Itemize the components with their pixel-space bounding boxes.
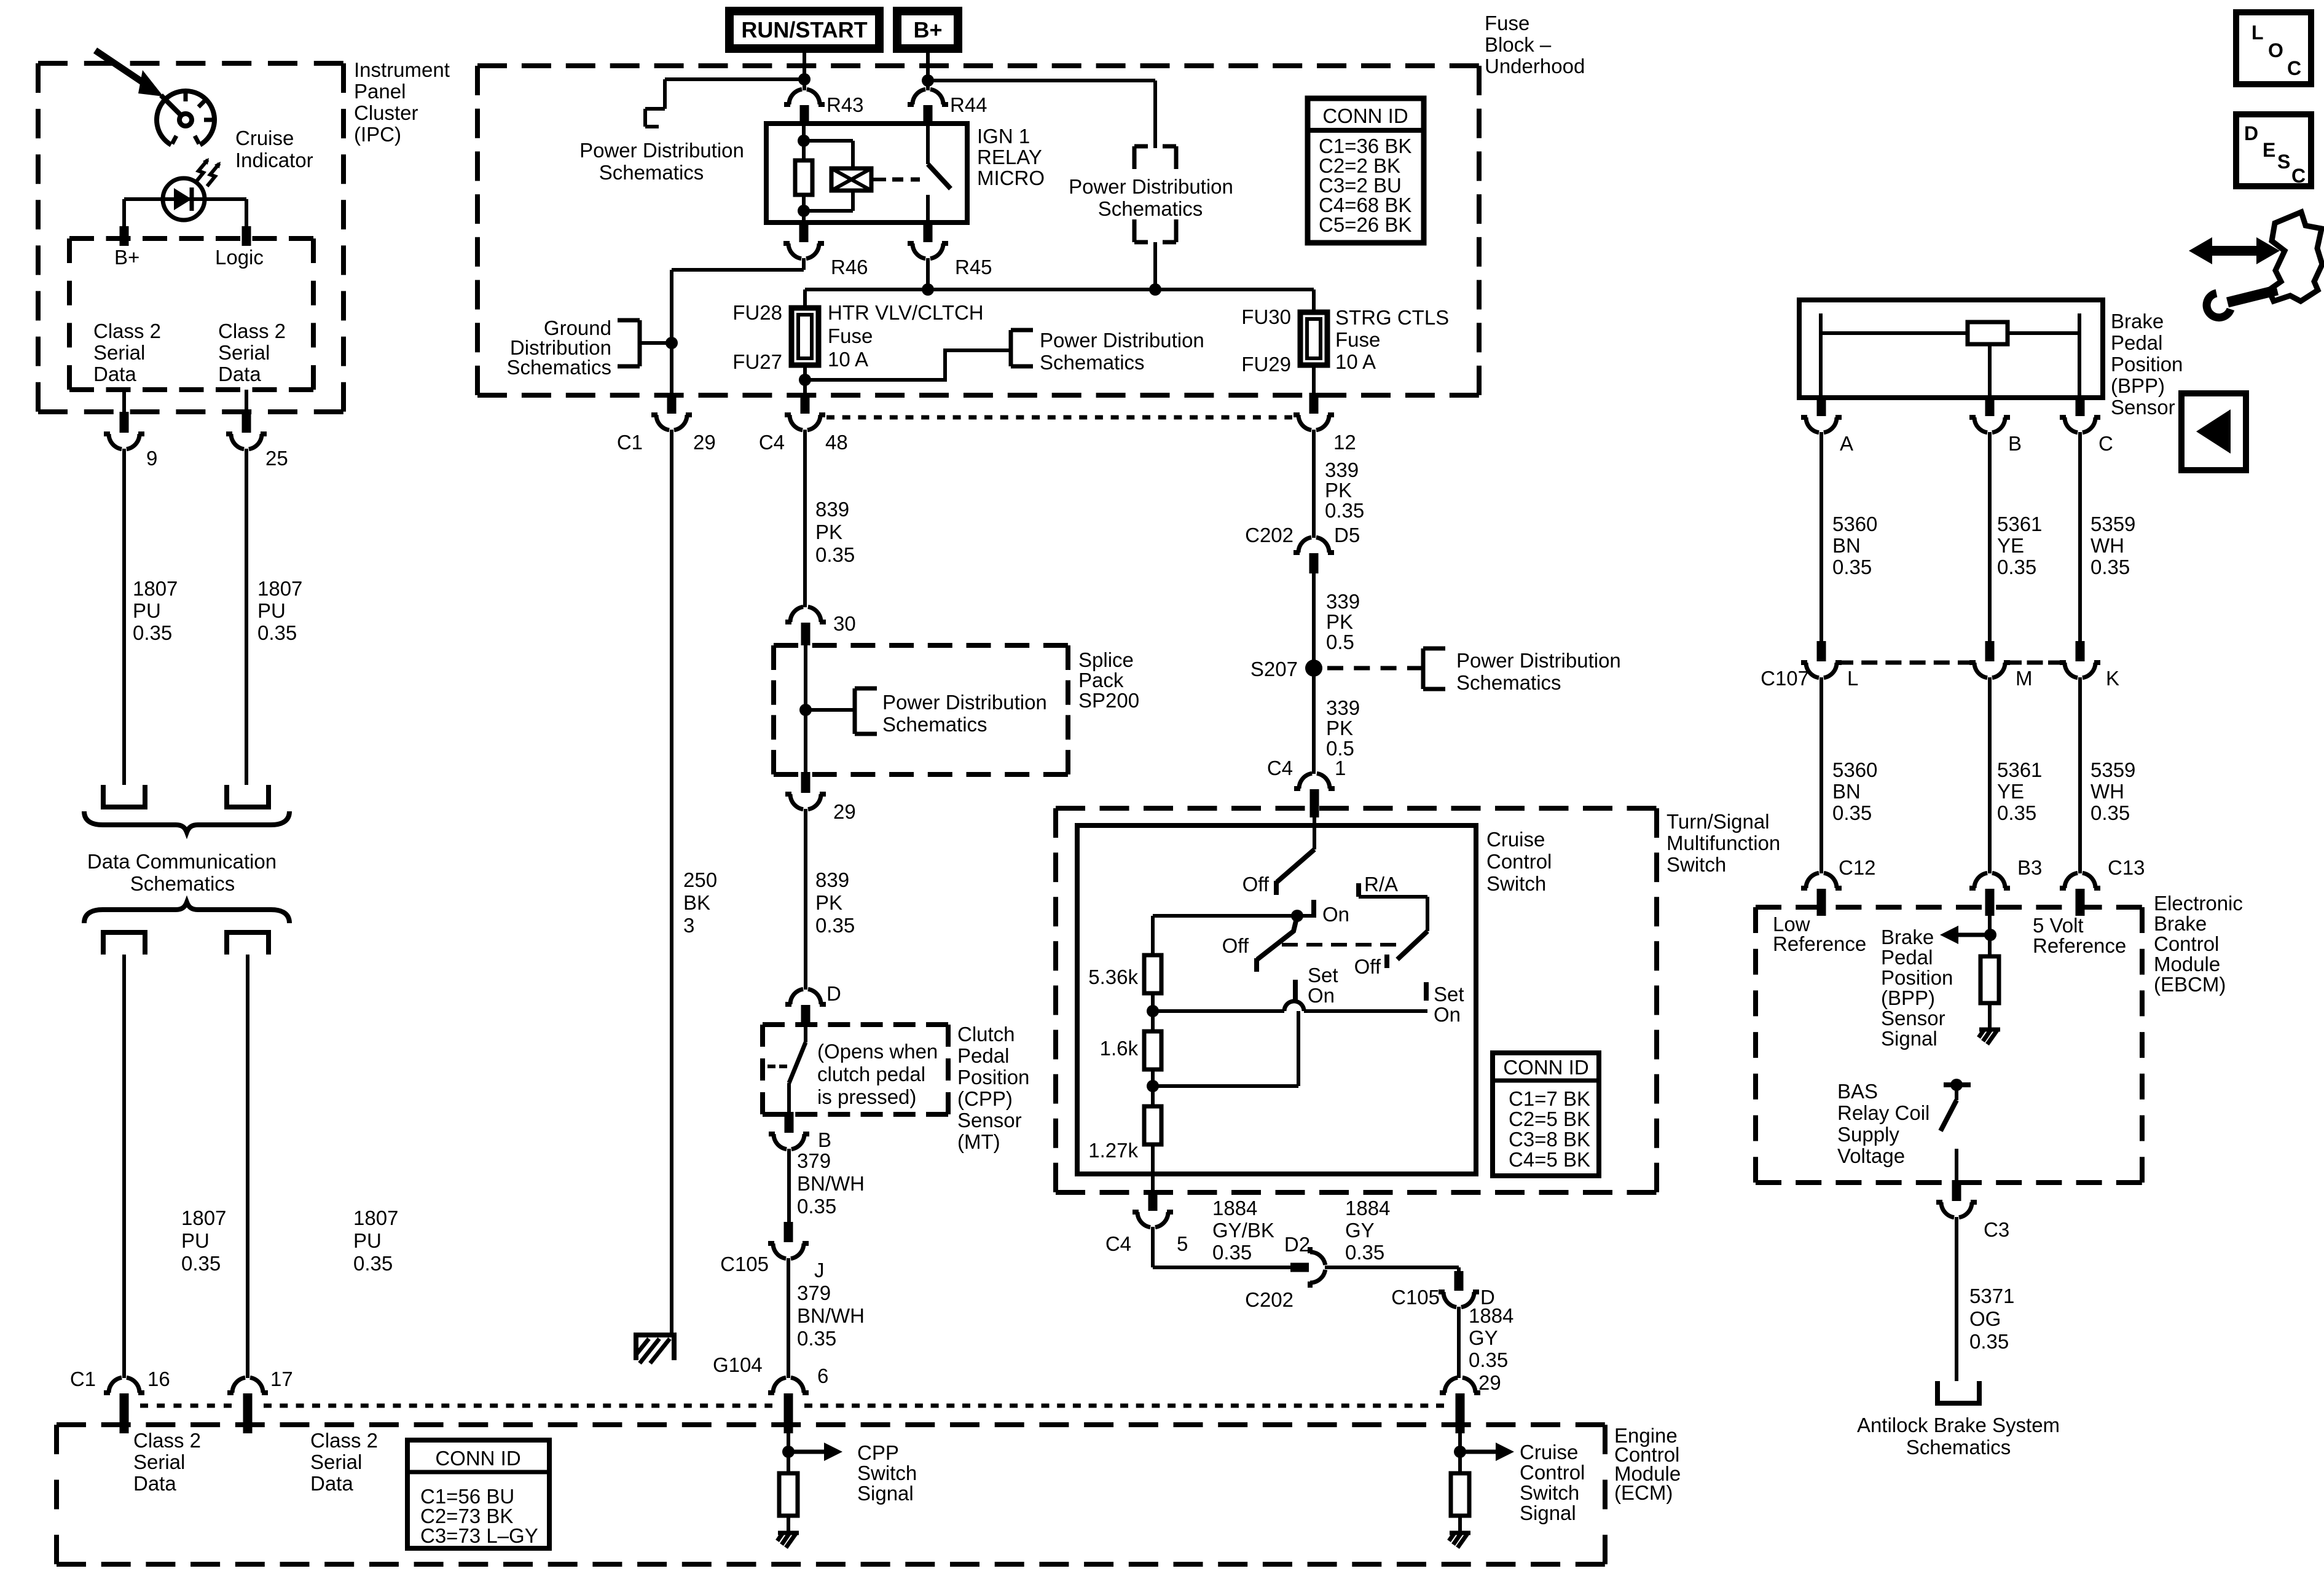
svg-text:0.35: 0.35 (797, 1195, 836, 1218)
svg-text:1807: 1807 (133, 577, 178, 600)
svg-text:D: D (826, 982, 841, 1005)
svg-text:Set: Set (1308, 964, 1338, 986)
svg-text:Module: Module (2154, 953, 2220, 975)
svg-text:Schematics: Schematics (506, 356, 611, 379)
svg-text:Off: Off (1242, 873, 1270, 896)
svg-text:(ECM): (ECM) (1614, 1481, 1673, 1504)
svg-text:Schematics: Schematics (599, 161, 704, 184)
svg-text:HTR VLV/CLTCH: HTR VLV/CLTCH (828, 301, 984, 324)
svg-text:Multifunction: Multifunction (1666, 832, 1780, 854)
svg-text:379: 379 (797, 1282, 831, 1304)
svg-text:Panel: Panel (354, 80, 406, 103)
svg-text:(Opens when: (Opens when (817, 1040, 938, 1063)
svg-text:R45: R45 (955, 256, 992, 278)
svg-text:C2=5 BK: C2=5 BK (1509, 1108, 1590, 1130)
svg-text:0.35: 0.35 (1212, 1241, 1252, 1264)
svg-text:Indicator: Indicator (235, 149, 313, 171)
svg-text:Serial: Serial (93, 341, 145, 364)
svg-text:Data: Data (133, 1472, 176, 1495)
svg-text:9: 9 (146, 447, 157, 470)
svg-text:5361: 5361 (1997, 513, 2042, 535)
svg-text:PU: PU (133, 599, 161, 622)
svg-text:Control: Control (1486, 850, 1552, 873)
svg-text:10 A: 10 A (1335, 350, 1376, 373)
svg-text:CPP: CPP (857, 1441, 899, 1464)
svg-text:5360: 5360 (1832, 513, 1877, 535)
svg-text:YE: YE (1997, 534, 2024, 557)
svg-text:M: M (2016, 667, 2033, 690)
svg-text:C1: C1 (70, 1368, 96, 1390)
svg-text:Instrument: Instrument (354, 58, 450, 81)
svg-text:(CPP): (CPP) (957, 1087, 1013, 1110)
svg-text:5 Volt: 5 Volt (2033, 914, 2084, 937)
svg-text:GY: GY (1469, 1326, 1498, 1349)
svg-text:FU30: FU30 (1241, 305, 1291, 328)
svg-text:1.27k: 1.27k (1088, 1139, 1138, 1162)
svg-text:MICRO: MICRO (977, 167, 1045, 189)
svg-text:L: L (2251, 22, 2264, 44)
svg-text:Schematics: Schematics (1906, 1436, 2011, 1459)
svg-text:PK: PK (815, 521, 842, 543)
svg-text:WH: WH (2090, 534, 2124, 557)
svg-text:C107: C107 (1761, 667, 1809, 690)
svg-text:IGN 1: IGN 1 (977, 125, 1030, 148)
svg-text:0.35: 0.35 (257, 621, 297, 644)
svg-text:E: E (2263, 139, 2275, 161)
svg-text:PK: PK (1325, 479, 1352, 502)
svg-text:BN: BN (1832, 780, 1861, 803)
svg-text:339: 339 (1325, 459, 1359, 481)
svg-text:0.35: 0.35 (1832, 801, 1872, 824)
svg-text:0.35: 0.35 (1997, 801, 2036, 824)
svg-text:17: 17 (270, 1368, 293, 1390)
svg-text:OG: OG (1969, 1307, 2001, 1330)
svg-text:1807: 1807 (257, 577, 302, 600)
svg-text:29: 29 (1478, 1371, 1501, 1394)
svg-text:D5: D5 (1334, 524, 1360, 546)
svg-text:On: On (1308, 984, 1335, 1007)
svg-text:BN/WH: BN/WH (797, 1172, 865, 1195)
svg-text:Cluster: Cluster (354, 101, 418, 124)
svg-text:Turn/Signal: Turn/Signal (1666, 810, 1770, 833)
svg-text:Class 2: Class 2 (310, 1429, 378, 1452)
svg-text:Serial: Serial (310, 1451, 362, 1473)
svg-text:FU29: FU29 (1241, 353, 1291, 376)
svg-text:FU28: FU28 (732, 301, 782, 324)
svg-text:Fuse: Fuse (828, 325, 873, 347)
svg-text:C1=7 BK: C1=7 BK (1509, 1087, 1590, 1110)
svg-text:BAS: BAS (1837, 1080, 1878, 1103)
svg-text:1884: 1884 (1469, 1304, 1513, 1327)
svg-text:5359: 5359 (2090, 513, 2135, 535)
svg-text:PK: PK (1326, 717, 1353, 739)
svg-text:Schematics: Schematics (130, 872, 235, 895)
svg-text:C4: C4 (759, 431, 785, 454)
svg-text:C1: C1 (617, 431, 643, 454)
svg-text:B: B (2008, 432, 2022, 455)
svg-text:Control: Control (2154, 932, 2219, 955)
svg-text:Cruise: Cruise (1520, 1441, 1578, 1463)
svg-text:Class 2: Class 2 (133, 1429, 201, 1452)
svg-text:A: A (1840, 432, 1853, 455)
svg-text:Pack: Pack (1078, 669, 1124, 691)
svg-text:R46: R46 (831, 256, 868, 278)
svg-text:C202: C202 (1245, 524, 1294, 546)
svg-text:Cruise: Cruise (1486, 828, 1545, 851)
svg-text:1.6k: 1.6k (1100, 1037, 1139, 1060)
svg-text:Off: Off (1354, 955, 1381, 978)
svg-text:0.35: 0.35 (1469, 1349, 1508, 1371)
svg-text:Signal: Signal (1520, 1502, 1576, 1524)
svg-text:0.35: 0.35 (1345, 1241, 1384, 1264)
svg-text:Pedal: Pedal (957, 1044, 1009, 1067)
svg-text:YE: YE (1997, 780, 2024, 803)
svg-text:1807: 1807 (353, 1207, 398, 1229)
svg-text:5359: 5359 (2090, 758, 2135, 781)
svg-text:Logic: Logic (215, 246, 264, 269)
svg-text:0.35: 0.35 (1325, 499, 1364, 522)
svg-text:0.35: 0.35 (353, 1252, 393, 1275)
svg-text:3: 3 (683, 914, 694, 937)
svg-text:R44: R44 (950, 93, 987, 116)
svg-text:Voltage: Voltage (1837, 1144, 1905, 1167)
svg-text:Sensor: Sensor (957, 1109, 1022, 1132)
svg-text:C4: C4 (1267, 757, 1293, 779)
svg-text:C3: C3 (1984, 1218, 2009, 1241)
svg-text:29: 29 (693, 431, 716, 454)
svg-text:Switch: Switch (1486, 872, 1546, 895)
svg-text:1807: 1807 (181, 1207, 226, 1229)
svg-text:0.35: 0.35 (1832, 556, 1872, 578)
svg-text:C12: C12 (1839, 856, 1876, 879)
svg-text:C202: C202 (1245, 1288, 1294, 1311)
svg-text:O: O (2268, 39, 2283, 61)
svg-text:Fuse: Fuse (1335, 328, 1380, 351)
svg-text:12: 12 (1333, 431, 1356, 454)
svg-text:C: C (2291, 165, 2306, 187)
svg-text:R/A: R/A (1364, 873, 1398, 896)
svg-text:0.35: 0.35 (2090, 556, 2130, 578)
svg-text:B+: B+ (913, 17, 942, 42)
svg-text:Brake: Brake (2154, 912, 2207, 935)
svg-text:C105: C105 (720, 1253, 769, 1275)
svg-text:Signal: Signal (1881, 1027, 1937, 1050)
svg-text:BN: BN (1832, 534, 1861, 557)
svg-text:0.5: 0.5 (1326, 631, 1354, 653)
svg-text:clutch pedal: clutch pedal (817, 1063, 925, 1085)
svg-text:STRG CTLS: STRG CTLS (1335, 306, 1449, 329)
svg-text:839: 839 (815, 498, 849, 521)
svg-text:5361: 5361 (1997, 758, 2042, 781)
svg-text:R43: R43 (826, 93, 864, 116)
svg-text:0.35: 0.35 (797, 1327, 836, 1350)
svg-text:Data: Data (218, 363, 261, 385)
svg-text:16: 16 (147, 1368, 170, 1390)
svg-text:WH: WH (2090, 780, 2124, 803)
svg-text:0.35: 0.35 (181, 1252, 221, 1275)
svg-text:(BPP): (BPP) (2111, 374, 2165, 397)
svg-text:Data: Data (93, 363, 136, 385)
svg-text:0.35: 0.35 (1997, 556, 2036, 578)
svg-text:C3=8 BK: C3=8 BK (1509, 1128, 1590, 1151)
svg-text:Reference: Reference (1773, 932, 1866, 955)
svg-text:CONN ID: CONN ID (435, 1447, 520, 1470)
svg-text:(EBCM): (EBCM) (2154, 973, 2226, 996)
svg-text:250: 250 (683, 868, 717, 891)
svg-text:0.35: 0.35 (1969, 1330, 2009, 1353)
svg-text:B+: B+ (114, 246, 139, 269)
svg-text:C105: C105 (1391, 1286, 1440, 1309)
svg-text:B3: B3 (2017, 856, 2042, 879)
svg-text:Schematics: Schematics (1040, 351, 1145, 374)
svg-text:Clutch: Clutch (957, 1023, 1015, 1045)
svg-text:Power Distribution: Power Distribution (882, 691, 1047, 714)
svg-text:5371: 5371 (1969, 1285, 2014, 1307)
svg-text:29: 29 (833, 800, 856, 823)
svg-text:Electronic: Electronic (2154, 892, 2243, 915)
svg-text:Brake: Brake (1881, 926, 1934, 948)
svg-text:Cruise: Cruise (235, 127, 294, 149)
svg-text:C5=26 BK: C5=26 BK (1319, 213, 1411, 236)
svg-text:RELAY: RELAY (977, 146, 1042, 168)
svg-text:Signal: Signal (857, 1482, 914, 1505)
svg-text:25: 25 (265, 447, 288, 470)
svg-text:1: 1 (1335, 757, 1346, 779)
svg-text:Set: Set (1434, 983, 1464, 1006)
svg-text:D2: D2 (1284, 1233, 1310, 1256)
svg-text:GY: GY (1345, 1219, 1375, 1242)
svg-text:30: 30 (833, 612, 856, 635)
svg-text:0.35: 0.35 (815, 914, 855, 937)
svg-text:Schematics: Schematics (1098, 197, 1203, 220)
svg-text:0.35: 0.35 (133, 621, 172, 644)
svg-text:Switch: Switch (1520, 1481, 1579, 1504)
svg-text:PK: PK (815, 891, 842, 914)
svg-text:K: K (2106, 667, 2119, 690)
svg-text:BN/WH: BN/WH (797, 1304, 865, 1327)
svg-text:Power Distribution: Power Distribution (579, 139, 744, 162)
svg-text:Position: Position (957, 1066, 1029, 1089)
svg-text:C13: C13 (2108, 856, 2145, 879)
svg-text:339: 339 (1326, 590, 1360, 613)
svg-text:5.36k: 5.36k (1088, 966, 1138, 988)
svg-text:is pressed): is pressed) (817, 1085, 916, 1108)
svg-text:PU: PU (353, 1229, 382, 1252)
svg-text:PK: PK (1326, 610, 1353, 633)
svg-text:CONN ID: CONN ID (1322, 104, 1408, 127)
svg-text:C3=73 L–GY: C3=73 L–GY (420, 1524, 538, 1547)
svg-text:Control: Control (1520, 1461, 1585, 1484)
svg-text:Position: Position (2111, 353, 2183, 376)
svg-text:RUN/START: RUN/START (741, 17, 867, 42)
svg-text:CONN ID: CONN ID (1503, 1056, 1588, 1079)
svg-text:FU27: FU27 (732, 350, 782, 373)
svg-text:C4=5 BK: C4=5 BK (1509, 1148, 1590, 1171)
svg-text:SP200: SP200 (1078, 689, 1139, 712)
svg-text:G104: G104 (713, 1353, 763, 1376)
svg-text:S207: S207 (1250, 658, 1298, 680)
svg-text:6: 6 (817, 1364, 828, 1387)
svg-text:Pedal: Pedal (2111, 331, 2162, 354)
svg-text:Splice: Splice (1078, 648, 1134, 671)
svg-text:On: On (1434, 1003, 1461, 1026)
svg-text:Serial: Serial (133, 1451, 185, 1473)
svg-text:Antilock Brake System: Antilock Brake System (1857, 1414, 2060, 1436)
svg-text:Data: Data (310, 1472, 353, 1495)
svg-text:Reference: Reference (2033, 934, 2126, 957)
svg-text:PU: PU (257, 599, 286, 622)
svg-text:(MT): (MT) (957, 1130, 1000, 1153)
svg-text:48: 48 (825, 431, 848, 454)
svg-text:(IPC): (IPC) (354, 123, 401, 146)
svg-text:5: 5 (1177, 1232, 1188, 1255)
svg-text:Block –: Block – (1485, 33, 1552, 56)
svg-text:C4: C4 (1105, 1232, 1131, 1255)
svg-text:(BPP): (BPP) (1881, 986, 1935, 1009)
svg-text:Serial: Serial (218, 341, 270, 364)
svg-text:Power Distribution: Power Distribution (1040, 329, 1204, 352)
svg-text:S: S (2277, 151, 2290, 173)
svg-text:379: 379 (797, 1149, 831, 1172)
svg-text:C: C (2287, 57, 2301, 79)
svg-text:1884: 1884 (1345, 1197, 1390, 1219)
svg-text:C: C (2098, 432, 2113, 455)
svg-text:D: D (2244, 122, 2258, 144)
svg-text:Brake: Brake (2111, 310, 2164, 333)
svg-text:Class 2: Class 2 (218, 320, 286, 342)
svg-text:0.35: 0.35 (815, 543, 855, 566)
svg-text:L: L (1847, 667, 1858, 690)
svg-text:839: 839 (815, 868, 849, 891)
svg-text:Sensor: Sensor (2111, 396, 2175, 419)
svg-text:1884: 1884 (1212, 1197, 1257, 1219)
svg-text:Switch: Switch (857, 1462, 917, 1484)
svg-text:Power Distribution: Power Distribution (1456, 649, 1621, 672)
svg-text:PU: PU (181, 1229, 210, 1252)
svg-text:Relay Coil: Relay Coil (1837, 1101, 1929, 1124)
svg-text:On: On (1322, 903, 1349, 926)
svg-text:Sensor: Sensor (1881, 1007, 1945, 1030)
svg-text:Pedal: Pedal (1881, 946, 1933, 969)
svg-text:J: J (814, 1259, 825, 1282)
svg-text:Position: Position (1881, 966, 1953, 989)
svg-text:Class 2: Class 2 (93, 320, 161, 342)
svg-text:Switch: Switch (1666, 853, 1726, 876)
svg-text:339: 339 (1326, 696, 1360, 719)
svg-text:0.35: 0.35 (2090, 801, 2130, 824)
svg-text:Schematics: Schematics (1456, 671, 1561, 694)
svg-text:5360: 5360 (1832, 758, 1877, 781)
svg-text:B: B (818, 1128, 831, 1151)
svg-text:BK: BK (683, 891, 710, 914)
svg-text:10 A: 10 A (828, 348, 868, 371)
svg-text:Schematics: Schematics (882, 713, 987, 736)
svg-text:Data Communication: Data Communication (87, 850, 277, 873)
svg-text:Off: Off (1222, 934, 1249, 957)
svg-text:GY/BK: GY/BK (1212, 1219, 1274, 1242)
svg-text:Underhood: Underhood (1485, 55, 1585, 77)
svg-text:Power Distribution: Power Distribution (1069, 175, 1233, 198)
svg-text:Supply: Supply (1837, 1123, 1899, 1146)
svg-text:Fuse: Fuse (1485, 12, 1529, 34)
